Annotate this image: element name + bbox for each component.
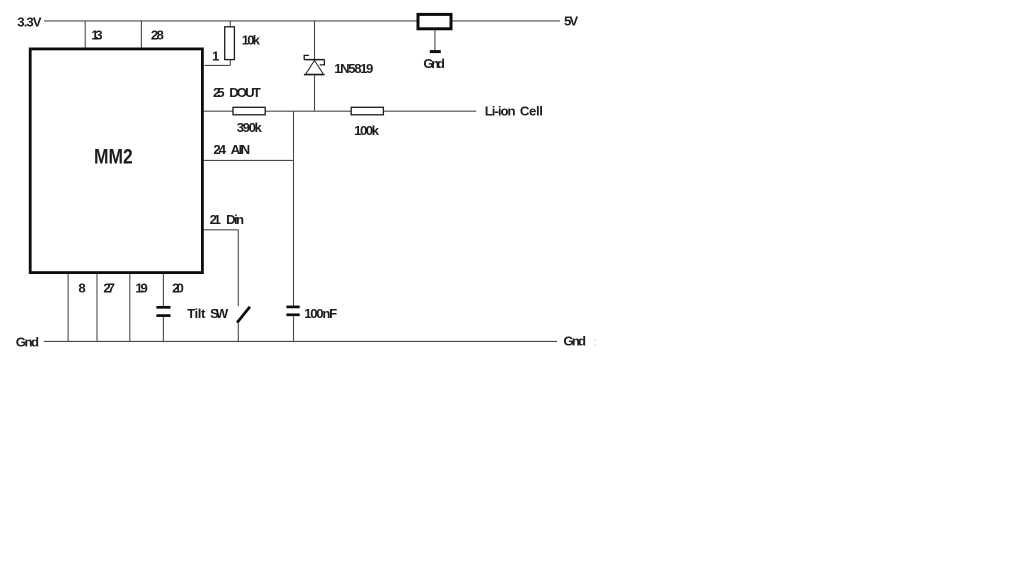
svg-text:20: 20 — [172, 280, 184, 295]
svg-text:390k: 390k — [237, 120, 263, 135]
svg-text:100k: 100k — [354, 123, 380, 138]
svg-text:8: 8 — [78, 280, 85, 295]
svg-text:Din: Din — [226, 212, 244, 227]
svg-text:AIN: AIN — [231, 142, 251, 157]
svg-text:10k: 10k — [242, 33, 261, 48]
svg-text:Gnd: Gnd — [423, 56, 445, 71]
svg-text:13: 13 — [91, 27, 102, 42]
svg-text:Gnd: Gnd — [563, 333, 586, 348]
svg-text:24: 24 — [213, 142, 226, 157]
svg-text::: : — [593, 333, 597, 348]
svg-text:100nF: 100nF — [304, 306, 337, 321]
svg-text:25: 25 — [213, 85, 225, 100]
svg-text:Cell: Cell — [520, 104, 543, 119]
svg-text:19: 19 — [135, 280, 147, 295]
svg-text:1: 1 — [212, 49, 219, 64]
svg-text:27: 27 — [103, 280, 115, 295]
svg-text:21: 21 — [210, 212, 221, 227]
svg-text:Tilt: Tilt — [187, 306, 206, 321]
svg-text:28: 28 — [151, 28, 164, 43]
svg-text:1N5819: 1N5819 — [334, 61, 373, 76]
svg-text:DOUT: DOUT — [229, 85, 261, 100]
svg-text:Li-ion: Li-ion — [485, 104, 516, 119]
svg-text:SW: SW — [210, 306, 229, 321]
svg-text:5V: 5V — [564, 14, 578, 29]
svg-text:MM2: MM2 — [94, 145, 133, 168]
svg-text:Gnd: Gnd — [16, 334, 39, 349]
svg-text:3.3V: 3.3V — [17, 15, 42, 30]
